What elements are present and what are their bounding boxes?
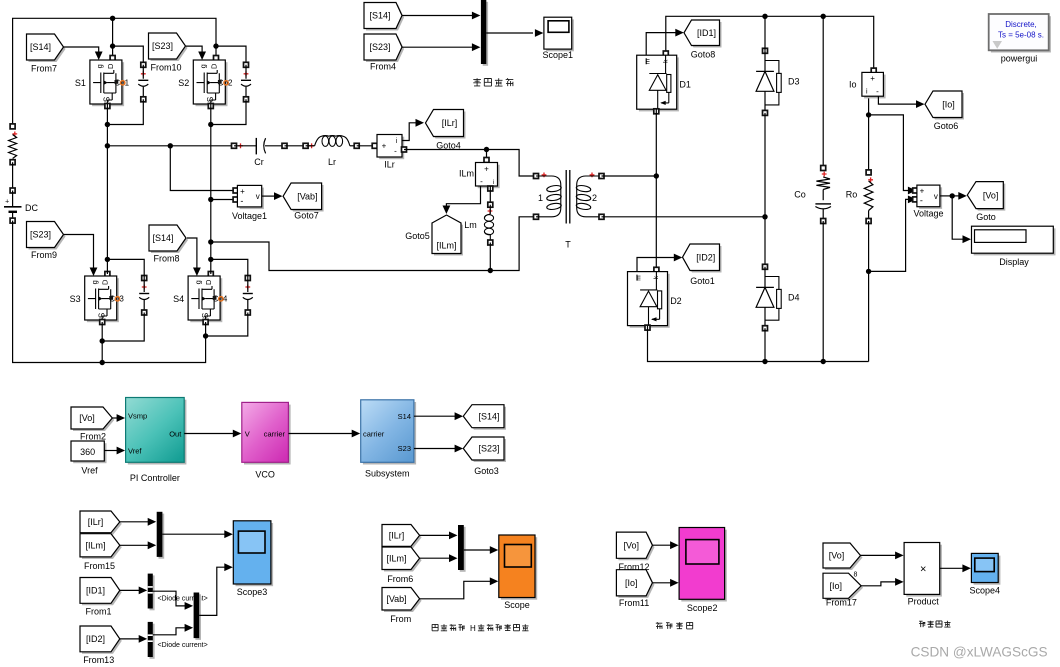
capacitor Cr bbox=[232, 138, 288, 167]
From7 tag [S14] bbox=[27, 34, 66, 62]
From17 tag [Io] bbox=[823, 573, 863, 600]
wire: Voltage - sense bbox=[869, 196, 917, 272]
svg-text:g: g bbox=[90, 280, 99, 284]
transformer T primary port - bbox=[534, 214, 539, 219]
svg-text:D: D bbox=[204, 279, 213, 285]
wire: node A to Cr bbox=[107, 145, 234, 147]
svg-text:D2: D2 bbox=[670, 296, 682, 306]
powergui block bbox=[989, 14, 1051, 64]
svg-text:From7: From7 bbox=[31, 64, 57, 74]
svg-text:[S23]: [S23] bbox=[369, 42, 390, 52]
svg-text:H: H bbox=[470, 624, 476, 633]
wire: S1 source to node A bbox=[106, 104, 108, 146]
Goto5 tag [ILm] bbox=[432, 215, 463, 256]
wire: Voltage + sense bbox=[869, 115, 917, 194]
svg-text:Io: Io bbox=[849, 80, 857, 90]
svg-text:V: V bbox=[245, 430, 250, 439]
label (chinese) constant voltage / constant current bbox=[656, 622, 663, 629]
MOSFET S4 bbox=[173, 272, 228, 325]
wire: Vo to Product bbox=[861, 552, 904, 560]
svg-text:Goto6: Goto6 bbox=[934, 121, 959, 131]
From4 tag [S14] bbox=[364, 3, 404, 31]
wire: PI Out to VCO bbox=[184, 430, 241, 438]
Subsystem block bbox=[361, 400, 416, 479]
svg-text:Goto8: Goto8 bbox=[691, 50, 716, 60]
svg-text:[Io]: [Io] bbox=[830, 581, 843, 591]
constant Vref (360) bbox=[71, 441, 107, 463]
junction: Lm / return rail bbox=[488, 268, 493, 273]
transformer T secondary port + bbox=[599, 174, 604, 179]
svg-text:D: D bbox=[101, 279, 110, 285]
Mux3 bbox=[458, 525, 466, 572]
svg-text:Scope: Scope bbox=[504, 600, 530, 610]
svg-text:v: v bbox=[256, 192, 260, 201]
junction: - rail / Co bbox=[821, 359, 826, 364]
junction: S1 source node bbox=[105, 122, 110, 127]
svg-text:Goto7: Goto7 bbox=[294, 211, 319, 221]
wire: S4 source to bottom rail bbox=[205, 322, 207, 336]
svg-text:powergui: powergui bbox=[1001, 54, 1038, 64]
wire: node A vertical to S3 drain bbox=[106, 146, 108, 274]
Goto3 tag [S14] bbox=[463, 405, 506, 430]
svg-text:ILr: ILr bbox=[384, 160, 395, 170]
svg-text:[ILr]: [ILr] bbox=[389, 531, 405, 541]
transformer T bbox=[536, 170, 602, 250]
junction: + rail / Co bbox=[821, 14, 826, 19]
Product block bbox=[904, 543, 942, 607]
svg-text:[S14]: [S14] bbox=[152, 233, 173, 243]
junction: rectifier right midpoint bbox=[762, 214, 767, 219]
svg-text:carrier: carrier bbox=[363, 430, 385, 439]
From11 tag [Io] bbox=[616, 570, 654, 598]
svg-text:Discrete,: Discrete, bbox=[1005, 20, 1037, 29]
Mux1 bbox=[157, 512, 165, 559]
wire: D4 anode to output - rail bbox=[764, 328, 766, 361]
svg-text:Lr: Lr bbox=[328, 157, 336, 167]
junction: node B / Co4 tap bbox=[208, 257, 213, 262]
svg-text:D4: D4 bbox=[788, 292, 800, 302]
From tag [Vo] (power) bbox=[823, 543, 863, 570]
wire: D2 anode to output - rail bbox=[648, 326, 869, 362]
VCO block bbox=[242, 402, 291, 479]
From15 tag [ILr] bbox=[80, 511, 122, 535]
Selector2 bbox=[148, 622, 155, 659]
svg-text:+: + bbox=[870, 74, 875, 83]
junction: S3 source node bbox=[100, 338, 105, 343]
junction: S2 source node B bbox=[208, 122, 213, 127]
svg-text:DC: DC bbox=[25, 203, 38, 213]
RC branch Co bbox=[794, 16, 831, 361]
svg-text:From4: From4 bbox=[370, 62, 396, 72]
wire: Co3 bottom to S3 source bbox=[102, 313, 144, 342]
From13 tag [ID2] bbox=[80, 626, 122, 654]
wire: S1 drain bbox=[112, 18, 114, 60]
svg-text:[ILm]: [ILm] bbox=[386, 554, 406, 564]
Goto1 tag [ID2] bbox=[683, 244, 722, 273]
svg-text:Vref: Vref bbox=[81, 466, 98, 476]
svg-text:[ILm]: [ILm] bbox=[85, 541, 105, 551]
svg-text:Voltage: Voltage bbox=[913, 209, 943, 219]
svg-text:Product: Product bbox=[908, 597, 940, 607]
svg-text:+: + bbox=[484, 165, 489, 174]
svg-text:From2: From2 bbox=[80, 432, 106, 442]
svg-text:[S14]: [S14] bbox=[30, 42, 51, 52]
svg-text:D: D bbox=[106, 63, 115, 69]
wire: S23 to Goto3 bbox=[414, 445, 463, 453]
svg-text:carrier: carrier bbox=[264, 430, 286, 439]
capacitor Co1 (snubber of S1) bbox=[138, 62, 148, 102]
Scope (orange) bbox=[499, 535, 537, 610]
wire: Co2 snubber top tie bbox=[216, 46, 246, 66]
svg-text:-: - bbox=[480, 177, 483, 186]
Goto6 tag [Io] bbox=[925, 91, 964, 120]
wire: secondary - to rectifier right leg bbox=[602, 216, 766, 218]
svg-text:From9: From9 bbox=[31, 250, 57, 260]
junction: S4 source node bbox=[203, 333, 208, 338]
transformer T primary port + bbox=[534, 174, 539, 179]
wire: From2 to PI bbox=[112, 414, 125, 422]
wire: ILr to Mux3 bbox=[420, 532, 458, 540]
label (chinese) drive signal bbox=[473, 78, 481, 86]
inductor Lr bbox=[303, 136, 359, 167]
capacitor Co2 (snubber of S2) bbox=[241, 62, 251, 102]
From tag [Vab] bbox=[382, 588, 422, 613]
svg-text:S14: S14 bbox=[398, 412, 411, 421]
label (chinese) output power bbox=[919, 621, 925, 627]
From2 tag [Vo] bbox=[71, 407, 114, 431]
current measurement ILm bbox=[459, 150, 500, 189]
svg-text:[S23]: [S23] bbox=[30, 230, 51, 240]
wire: Selector2 to Mux2 bbox=[153, 624, 193, 635]
svg-text:CSDN @xLWAGScGS: CSDN @xLWAGScGS bbox=[911, 645, 1048, 660]
wire: From7 to S1 gate bbox=[64, 47, 103, 60]
svg-text:Goto: Goto bbox=[976, 212, 996, 222]
svg-text:1: 1 bbox=[538, 193, 543, 203]
wire: Co1 snubber top tie bbox=[113, 46, 144, 66]
wire: Co1 bottom to S1 source bbox=[107, 99, 143, 124]
svg-text:Scope3: Scope3 bbox=[237, 587, 268, 597]
MOSFET S3 bbox=[70, 272, 125, 325]
svg-text:Goto5: Goto5 bbox=[405, 231, 430, 241]
Selector1 bbox=[148, 574, 155, 611]
wire: From10 to S2 gate bbox=[186, 46, 206, 60]
svg-text:From1: From1 bbox=[85, 607, 111, 617]
svg-text:D1: D1 bbox=[679, 80, 691, 90]
svg-text:[Vab]: [Vab] bbox=[386, 594, 406, 604]
svg-text:[S14]: [S14] bbox=[478, 411, 499, 421]
resistor Ro bbox=[846, 97, 873, 362]
svg-text:+: + bbox=[920, 187, 925, 196]
svg-text:ILm: ILm bbox=[459, 169, 474, 179]
svg-text:Lm: Lm bbox=[464, 220, 477, 230]
Goto8 tag [ID1] bbox=[684, 20, 722, 48]
svg-text:Display: Display bbox=[999, 257, 1029, 267]
wire: From4 S14 to Mux bbox=[402, 12, 480, 20]
svg-text:[Io]: [Io] bbox=[942, 100, 955, 110]
wire: transformer primary - return rail bbox=[211, 217, 534, 271]
Scope1 bbox=[543, 17, 574, 60]
svg-text:[ID2]: [ID2] bbox=[86, 634, 105, 644]
svg-text:<Diode current>: <Diode current> bbox=[158, 642, 208, 649]
wire: D1 anode to D2 cathode bbox=[655, 109, 657, 271]
svg-text:[S23]: [S23] bbox=[152, 41, 173, 51]
wire: DC+ top rail bbox=[13, 18, 216, 126]
svg-text:D3: D3 bbox=[788, 76, 800, 86]
junction: node B / return rail bbox=[208, 239, 213, 244]
wire: VCO to Subsystem bbox=[288, 430, 360, 438]
svg-text:From10: From10 bbox=[150, 63, 181, 73]
svg-text:S3: S3 bbox=[70, 294, 81, 304]
junction: - rail / D4 bbox=[762, 359, 767, 364]
diode D1 bbox=[637, 51, 691, 114]
wire: ILr i output to Goto4 bbox=[402, 119, 424, 141]
svg-text:[S23]: [S23] bbox=[478, 444, 499, 454]
svg-text:-: - bbox=[240, 196, 243, 206]
svg-text:2: 2 bbox=[592, 193, 597, 203]
junction: Ro- / Voltage- tap bbox=[866, 269, 871, 274]
svg-text:+: + bbox=[382, 142, 387, 151]
svg-text:Ts = 5e-08 s.: Ts = 5e-08 s. bbox=[998, 31, 1044, 40]
wire: Io to Scope2 bbox=[652, 579, 678, 587]
Goto3 tag [S23] bbox=[463, 437, 506, 462]
svg-text:g: g bbox=[199, 64, 208, 68]
Scope4 bbox=[970, 553, 1001, 595]
wire: ILm- to Lm bbox=[488, 186, 493, 205]
wire: From8 to S4 gate bbox=[187, 238, 201, 276]
svg-text:[ID1]: [ID1] bbox=[86, 586, 105, 596]
svg-text:Scope2: Scope2 bbox=[687, 603, 718, 613]
diode D2 bbox=[628, 267, 682, 330]
svg-text:From6: From6 bbox=[387, 574, 413, 584]
Goto7 tag [Vab] bbox=[283, 183, 324, 212]
svg-text:-: - bbox=[920, 196, 923, 206]
wire: Voltage1 v to Goto7 bbox=[262, 192, 283, 200]
capacitor Co3 (snubber of S3) bbox=[139, 276, 149, 316]
MOSFET S1 bbox=[75, 56, 130, 109]
wire: Selector1 to Mux2 bbox=[153, 591, 193, 610]
wire: node B vertical bbox=[210, 104, 212, 274]
wire: ILm i output to Goto5 bbox=[443, 186, 481, 214]
wire: S14 to Goto3 bbox=[414, 412, 463, 420]
junction: Io- / Voltage+ tap bbox=[866, 112, 871, 117]
voltage measurement Voltage bbox=[913, 185, 944, 218]
junction: node B / Voltage1 - tap bbox=[208, 197, 213, 202]
wire: S3 source to bottom rail bbox=[101, 322, 103, 363]
wire: ILm to Mux3 bbox=[420, 554, 458, 562]
svg-text:[ILr]: [ILr] bbox=[442, 118, 458, 128]
wire: ILr- to transformer primary + bbox=[404, 150, 534, 177]
wire: DC output + rail bbox=[666, 16, 874, 70]
Scope3 bbox=[233, 521, 273, 597]
wire: Co3 top tie bbox=[107, 259, 144, 278]
transformer T secondary port - bbox=[599, 214, 604, 219]
Scope2 (magenta) bbox=[679, 528, 727, 614]
svg-text:g: g bbox=[193, 280, 202, 284]
From1 tag [ID1] bbox=[80, 578, 122, 606]
svg-text:Vref: Vref bbox=[128, 446, 142, 455]
svg-text:g: g bbox=[95, 64, 104, 68]
svg-text:From11: From11 bbox=[619, 598, 649, 608]
svg-text:Ro: Ro bbox=[846, 190, 858, 200]
wire: Io to Product bbox=[861, 578, 904, 586]
wire: Co4 top tie bbox=[211, 259, 248, 278]
junction: Voltage1 + tap bbox=[168, 143, 173, 148]
DC voltage source DC bbox=[4, 188, 38, 223]
current measurement Io bbox=[849, 68, 886, 98]
wire: node A tap to Voltage1 + bbox=[170, 146, 235, 191]
wire: Co4 bottom to S4 source bbox=[206, 313, 248, 337]
wire: to Goto tag bbox=[952, 192, 967, 200]
svg-text:[ILm]: [ILm] bbox=[436, 241, 456, 251]
svg-text:S4: S4 bbox=[173, 294, 184, 304]
wire: Lm to return rail bbox=[489, 243, 491, 271]
inductor Lm bbox=[464, 202, 493, 245]
From6 tag [ILr] bbox=[382, 525, 422, 549]
svg-text:8: 8 bbox=[854, 572, 858, 579]
svg-text:[Vab]: [Vab] bbox=[297, 191, 317, 201]
svg-text:From17: From17 bbox=[826, 598, 857, 608]
junction: ILm branch tap bbox=[484, 147, 489, 152]
wire: ILm to Mux1 bbox=[120, 541, 156, 549]
diode D4 bbox=[756, 264, 799, 330]
svg-text:[Vo]: [Vo] bbox=[623, 540, 639, 550]
wire: Vo to Scope2 bbox=[652, 541, 678, 549]
wire: Mux to Scope1 bbox=[486, 29, 543, 37]
svg-text:D: D bbox=[209, 63, 218, 69]
svg-text:PI Controller: PI Controller bbox=[130, 473, 180, 483]
Mux2 bbox=[194, 593, 201, 640]
From12 tag [Vo] bbox=[616, 532, 654, 560]
svg-text:[Io]: [Io] bbox=[625, 578, 638, 588]
wire: Mux3 to Scope bbox=[464, 546, 499, 554]
wire: From9 to S3 gate bbox=[64, 235, 97, 277]
svg-text:Goto4: Goto4 bbox=[436, 140, 461, 150]
wire: to Display bbox=[952, 196, 971, 243]
svg-text:v: v bbox=[934, 192, 938, 201]
wire: Lr to ILr bbox=[357, 145, 375, 147]
svg-text:Goto3: Goto3 bbox=[474, 466, 499, 476]
svg-text:×: × bbox=[920, 564, 926, 576]
svg-text:Co: Co bbox=[794, 190, 806, 200]
wire: DC- down to bottom rail bbox=[13, 221, 206, 363]
svg-text:-: - bbox=[876, 87, 879, 96]
svg-text:[ID1]: [ID1] bbox=[697, 28, 716, 38]
wire: node B to Voltage1 - bbox=[211, 199, 236, 201]
svg-text:From: From bbox=[390, 614, 411, 624]
svg-text:360: 360 bbox=[80, 447, 95, 457]
capacitor Co4 (snubber of S4) bbox=[243, 276, 253, 316]
svg-text:Scope4: Scope4 bbox=[970, 586, 1001, 596]
svg-text:From13: From13 bbox=[83, 655, 114, 665]
wire: D3 anode to D4 cathode bbox=[764, 113, 766, 267]
svg-text:Vsmp: Vsmp bbox=[128, 411, 147, 420]
wire: ID2 to Selector2 bbox=[120, 635, 147, 643]
wire: secondary + to rectifier left leg bbox=[602, 175, 657, 177]
From10 tag [S23] bbox=[149, 33, 188, 61]
wire: D1 m output to Goto8 bbox=[646, 29, 684, 56]
svg-text:Out: Out bbox=[169, 430, 182, 439]
svg-text:Cr: Cr bbox=[254, 157, 264, 167]
junction: rectifier left midpoint bbox=[654, 173, 659, 178]
junction: S2 drain / snubber Co2 tap bbox=[213, 43, 218, 48]
svg-text:S23: S23 bbox=[398, 444, 411, 453]
From15 tag [ILm] bbox=[80, 534, 122, 559]
svg-text:VCO: VCO bbox=[255, 470, 275, 480]
svg-text:Voltage1: Voltage1 bbox=[232, 211, 267, 221]
junction: + rail / D3 bbox=[762, 14, 767, 19]
resistor R (DC series branch) bbox=[9, 124, 18, 165]
svg-text:Goto1: Goto1 bbox=[690, 276, 715, 286]
junction: node A / Co3 tap bbox=[105, 257, 110, 262]
wire: Product to Scope4 bbox=[940, 564, 971, 572]
diode D3 bbox=[756, 48, 799, 115]
label (chinese) inductor currents and H-bridge midpoint voltage bbox=[432, 624, 528, 633]
svg-text:i: i bbox=[493, 180, 494, 186]
wire: Mux1 to Scope3 bbox=[162, 530, 232, 538]
voltage measurement Voltage1 bbox=[232, 185, 267, 221]
svg-text:Scope1: Scope1 bbox=[543, 50, 574, 60]
wire: Cr to Lr bbox=[285, 145, 306, 147]
From4 tag [S23] bbox=[364, 34, 404, 62]
wire: Mux2 to Scope3 bbox=[199, 563, 233, 615]
svg-text:From8: From8 bbox=[153, 254, 179, 264]
wire: Vab to Scope bbox=[420, 577, 499, 598]
svg-text:[S14]: [S14] bbox=[369, 11, 390, 21]
wire: D2 m output to Goto1 bbox=[637, 254, 682, 272]
junction: top rail / S1 drain bbox=[110, 16, 115, 21]
wire: Co2 bottom to S2 source bbox=[211, 99, 246, 124]
svg-text:[Vo]: [Vo] bbox=[829, 551, 845, 561]
wire: resistor to DC source bbox=[12, 162, 14, 190]
Goto tag [Vo] bbox=[967, 182, 1005, 211]
junction: node A bbox=[105, 143, 110, 148]
junction: bottom rail / S3 source bbox=[100, 360, 105, 365]
svg-text:-: - bbox=[394, 147, 397, 156]
wire: Voltage v output bbox=[940, 195, 952, 197]
svg-text:[ID2]: [ID2] bbox=[696, 252, 715, 262]
wire: Io i output to Goto6 bbox=[878, 96, 924, 108]
svg-text:S2: S2 bbox=[178, 78, 189, 88]
wire: ID1 to Selector1 bbox=[120, 587, 147, 595]
current measurement ILr bbox=[372, 135, 406, 170]
Display block bbox=[972, 226, 1056, 267]
svg-text:S1: S1 bbox=[75, 78, 86, 88]
svg-text:T: T bbox=[565, 240, 571, 250]
wire: + rail to D3 bbox=[764, 16, 766, 51]
Goto4 tag [ILr] bbox=[426, 110, 466, 139]
svg-text:+: + bbox=[240, 187, 245, 196]
svg-text:From15: From15 bbox=[84, 561, 115, 571]
wire: From4 S23 to Mux bbox=[402, 43, 480, 51]
svg-text:[Vo]: [Vo] bbox=[983, 190, 999, 200]
wire: ILr to Mux1 bbox=[120, 518, 156, 526]
svg-text:[ILr]: [ILr] bbox=[88, 517, 104, 527]
svg-text:+: + bbox=[5, 199, 9, 206]
svg-text:[Vo]: [Vo] bbox=[79, 413, 95, 423]
svg-text:Subsystem: Subsystem bbox=[365, 469, 410, 479]
junction: Vo signal split bbox=[950, 193, 955, 198]
MOSFET S2 bbox=[178, 56, 233, 109]
junction: S1 drain / snubber Co1 tap bbox=[110, 43, 115, 48]
PI Controller block bbox=[126, 398, 187, 484]
From6 tag [ILm] bbox=[382, 547, 422, 572]
Mux (drive signals) bbox=[481, 0, 488, 66]
wire: Vref to PI bbox=[104, 447, 125, 455]
From8 tag [S14] bbox=[149, 225, 188, 253]
From9 tag [S23] bbox=[27, 222, 66, 250]
